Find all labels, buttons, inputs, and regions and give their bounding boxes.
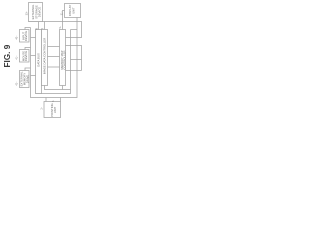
wire	[25, 68, 31, 71]
box L2	[20, 50, 30, 63]
wire	[31, 75, 36, 77]
svg-text:DEVICE: DEVICE	[24, 31, 28, 42]
bar1	[36, 30, 42, 94]
wire	[71, 59, 82, 61]
box L3	[20, 71, 30, 88]
svg-text:IMAGE DATA CONTROLLER: IMAGE DATA CONTROLLER	[42, 38, 46, 75]
wire	[48, 56, 60, 58]
box BB bottom	[44, 102, 61, 118]
svg-text:DEVICE: DEVICE	[24, 51, 28, 62]
wire	[25, 28, 31, 30]
box T4	[60, 30, 66, 86]
wire	[44, 22, 46, 30]
svg-text:DRIVE: DRIVE	[25, 75, 29, 84]
wire	[38, 22, 40, 30]
wire	[60, 98, 62, 102]
wire	[31, 37, 36, 39]
box L1	[20, 30, 30, 43]
wire	[29, 22, 82, 38]
box B1 top-left (external device)	[29, 3, 43, 22]
svg-text:42~: 42~	[16, 81, 19, 86]
box B2 top-right	[65, 4, 81, 18]
wire	[71, 29, 78, 31]
wire	[48, 46, 60, 48]
svg-text:31~: 31~	[60, 11, 63, 16]
svg-text:DATA BUS: DATA BUS	[36, 53, 40, 67]
svg-text:DEVICE: DEVICE	[38, 7, 42, 18]
svg-text:CONTROLLER: CONTROLLER	[62, 50, 66, 69]
wire	[31, 55, 36, 57]
svg-text:UNIT: UNIT	[72, 7, 76, 14]
wire	[45, 98, 47, 102]
wire	[63, 11, 65, 30]
wire	[45, 86, 71, 90]
svg-text:UNIT: UNIT	[53, 106, 57, 113]
svg-text:30~: 30~	[25, 11, 28, 16]
svg-text:40~: 40~	[16, 35, 19, 40]
svg-text:FIG. 9: FIG. 9	[3, 44, 12, 67]
svg-text:41~: 41~	[16, 55, 19, 60]
wire	[31, 18, 78, 98]
bar2	[42, 30, 48, 86]
wire	[48, 66, 60, 68]
wire	[66, 46, 82, 71]
wire	[36, 30, 71, 94]
wire	[25, 48, 31, 50]
wire	[66, 70, 82, 72]
